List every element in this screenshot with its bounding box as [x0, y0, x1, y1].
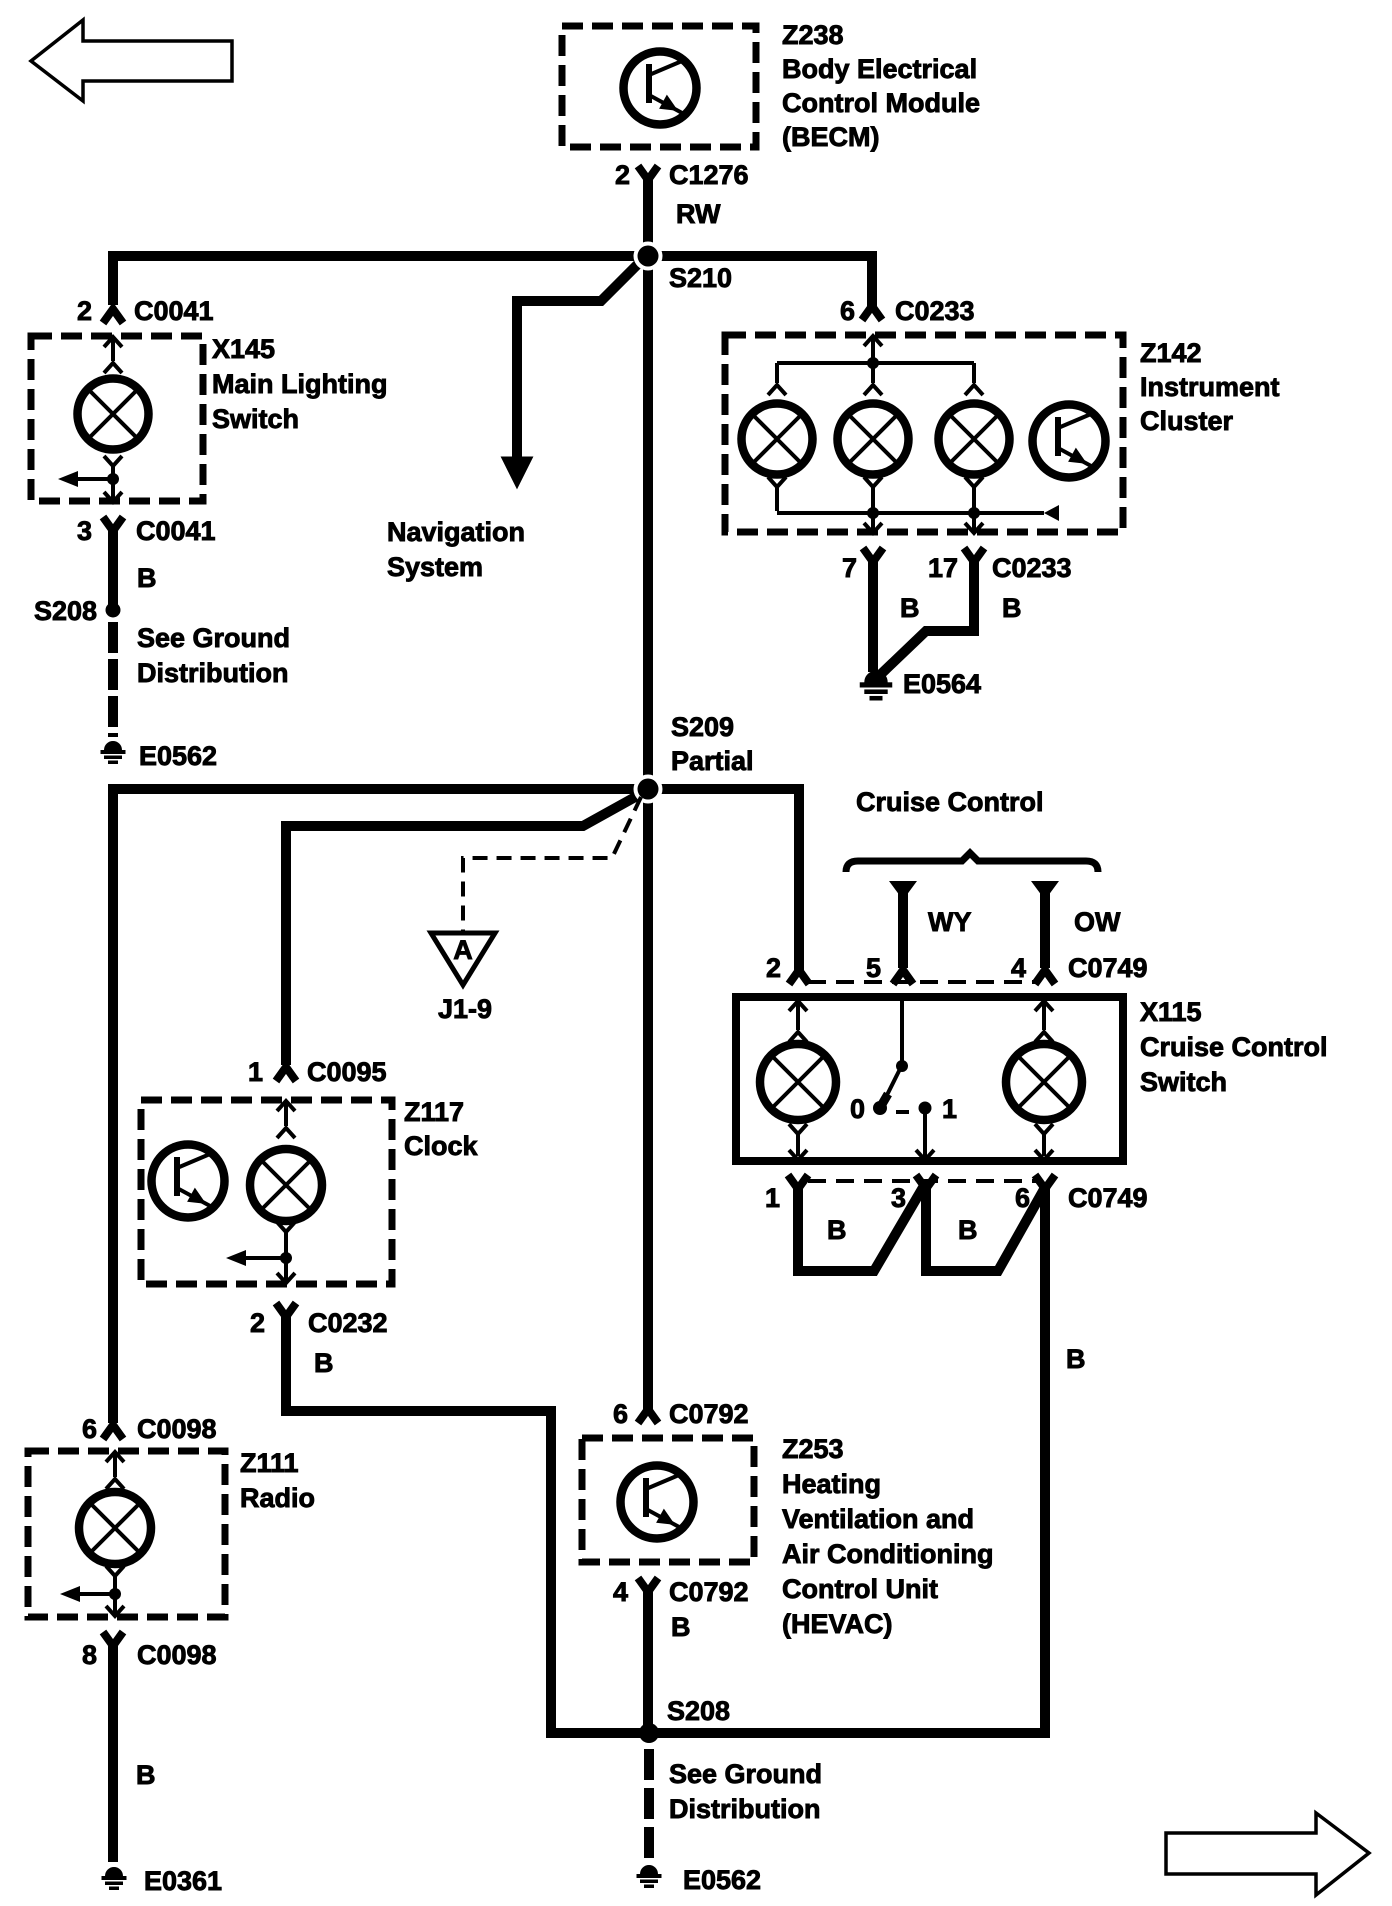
- svg-text:Cluster: Cluster: [1140, 406, 1234, 436]
- svg-text:(BECM): (BECM): [782, 122, 879, 152]
- svg-text:Body Electrical: Body Electrical: [782, 54, 977, 84]
- svg-text:C1276: C1276: [669, 160, 749, 190]
- svg-text:S208: S208: [667, 1696, 730, 1726]
- svg-text:E0361: E0361: [144, 1866, 222, 1896]
- svg-text:B: B: [958, 1215, 978, 1245]
- svg-text:Ventilation and: Ventilation and: [782, 1504, 974, 1534]
- svg-text:4: 4: [1011, 953, 1026, 983]
- svg-text:6: 6: [1015, 1183, 1030, 1213]
- svg-text:Z238: Z238: [782, 20, 844, 50]
- svg-text:C0749: C0749: [1068, 953, 1148, 983]
- svg-text:Main Lighting: Main Lighting: [212, 369, 387, 399]
- svg-text:1: 1: [942, 1094, 957, 1124]
- svg-text:Navigation: Navigation: [387, 517, 525, 547]
- svg-text:17: 17: [928, 553, 958, 583]
- svg-text:Z111: Z111: [240, 1448, 299, 1478]
- svg-text:Heating: Heating: [782, 1469, 881, 1499]
- svg-text:6: 6: [82, 1414, 97, 1444]
- svg-text:Z142: Z142: [1140, 338, 1202, 368]
- svg-text:Air Conditioning: Air Conditioning: [782, 1539, 993, 1569]
- svg-text:Cruise Control: Cruise Control: [1140, 1032, 1328, 1062]
- svg-text:C0749: C0749: [1068, 1183, 1148, 1213]
- svg-text:System: System: [387, 552, 483, 582]
- svg-text:A: A: [453, 935, 473, 965]
- svg-text:C0233: C0233: [992, 553, 1072, 583]
- svg-text:1: 1: [248, 1057, 263, 1087]
- svg-text:Radio: Radio: [240, 1483, 315, 1513]
- svg-text:Instrument: Instrument: [1140, 372, 1280, 402]
- svg-text:1: 1: [765, 1183, 780, 1213]
- svg-text:E0564: E0564: [903, 669, 981, 699]
- svg-text:E0562: E0562: [683, 1865, 761, 1895]
- svg-text:8: 8: [82, 1640, 97, 1670]
- svg-text:0: 0: [850, 1094, 865, 1124]
- svg-text:B: B: [314, 1348, 334, 1378]
- svg-text:C0233: C0233: [895, 296, 975, 326]
- svg-text:Z117: Z117: [404, 1097, 464, 1127]
- svg-text:J1-9: J1-9: [438, 994, 492, 1024]
- svg-text:2: 2: [766, 953, 781, 983]
- svg-text:S209: S209: [671, 712, 734, 742]
- svg-text:Switch: Switch: [212, 404, 299, 434]
- svg-text:6: 6: [840, 296, 855, 326]
- svg-text:B: B: [1066, 1344, 1086, 1374]
- svg-text:B: B: [136, 1760, 156, 1790]
- svg-text:S208: S208: [34, 596, 97, 626]
- svg-text:3: 3: [77, 516, 92, 546]
- svg-text:See Ground: See Ground: [137, 623, 290, 653]
- svg-text:Cruise Control: Cruise Control: [856, 787, 1044, 817]
- svg-text:Distribution: Distribution: [669, 1794, 820, 1824]
- svg-text:3: 3: [891, 1183, 906, 1213]
- svg-text:See Ground: See Ground: [669, 1759, 822, 1789]
- svg-text:RW: RW: [676, 199, 721, 229]
- svg-text:4: 4: [613, 1577, 628, 1607]
- svg-text:Switch: Switch: [1140, 1067, 1227, 1097]
- svg-text:WY: WY: [928, 907, 972, 937]
- svg-text:B: B: [137, 563, 157, 593]
- svg-text:Distribution: Distribution: [137, 658, 288, 688]
- svg-text:5: 5: [866, 953, 881, 983]
- svg-text:B: B: [1002, 593, 1022, 623]
- svg-text:C0041: C0041: [136, 516, 216, 546]
- svg-text:Partial: Partial: [671, 746, 754, 776]
- svg-text:Clock: Clock: [404, 1131, 479, 1161]
- svg-text:2: 2: [615, 160, 630, 190]
- svg-text:B: B: [827, 1215, 847, 1245]
- svg-text:C0792: C0792: [669, 1577, 749, 1607]
- svg-text:Control Module: Control Module: [782, 88, 980, 118]
- svg-text:2: 2: [77, 296, 92, 326]
- svg-text:E0562: E0562: [139, 741, 217, 771]
- svg-text:C0232: C0232: [308, 1308, 388, 1338]
- svg-text:B: B: [900, 593, 920, 623]
- svg-text:X115: X115: [1140, 997, 1202, 1027]
- svg-text:C0098: C0098: [137, 1414, 217, 1444]
- svg-text:B: B: [671, 1612, 691, 1642]
- svg-text:S210: S210: [669, 263, 732, 293]
- svg-text:2: 2: [250, 1308, 265, 1338]
- svg-text:(HEVAC): (HEVAC): [782, 1609, 893, 1639]
- svg-text:C0095: C0095: [307, 1057, 387, 1087]
- svg-text:C0098: C0098: [137, 1640, 217, 1670]
- svg-text:Control Unit: Control Unit: [782, 1574, 938, 1604]
- svg-text:OW: OW: [1074, 907, 1121, 937]
- svg-text:7: 7: [842, 553, 857, 583]
- svg-text:6: 6: [613, 1399, 628, 1429]
- svg-text:C0792: C0792: [669, 1399, 749, 1429]
- svg-text:X145: X145: [212, 334, 275, 364]
- svg-text:Z253: Z253: [782, 1434, 844, 1464]
- svg-text:C0041: C0041: [134, 296, 214, 326]
